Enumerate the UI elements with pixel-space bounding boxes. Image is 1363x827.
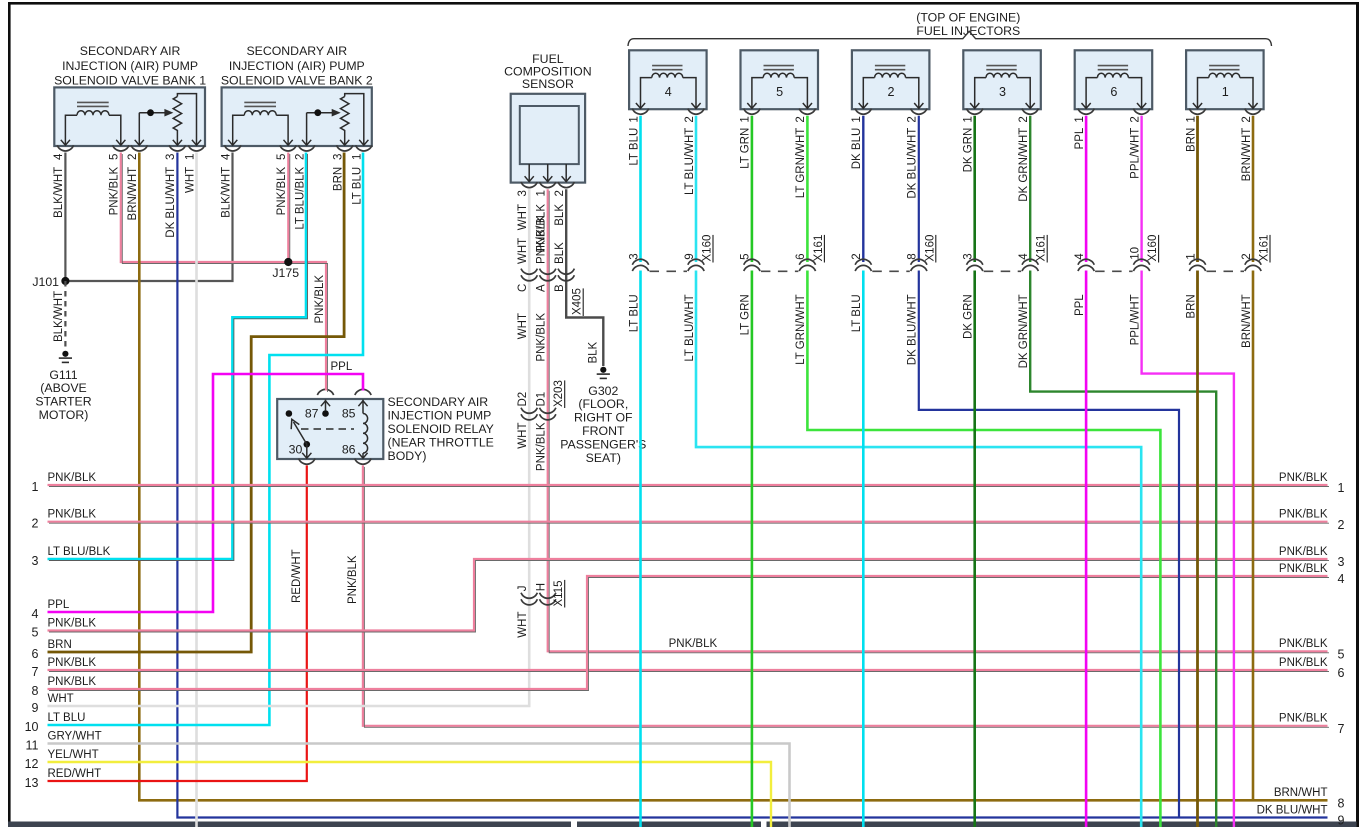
svg-text:PNK/BLK: PNK/BLK: [536, 313, 548, 362]
svg-text:WHT: WHT: [517, 423, 529, 449]
svg-text:RED/WHT: RED/WHT: [48, 768, 102, 780]
svg-text:PNK/BLK: PNK/BLK: [314, 275, 326, 324]
svg-text:D2: D2: [517, 392, 529, 407]
svg-text:DK BLU/WHT: DK BLU/WHT: [1257, 804, 1328, 816]
svg-text:J: J: [517, 586, 529, 592]
fuel injector 6 box: [1075, 50, 1153, 109]
svg-text:30: 30: [289, 442, 303, 456]
svg-text:3: 3: [999, 85, 1006, 99]
bank 2 variable resistor symbol: [341, 97, 349, 146]
svg-text:(ABOVE: (ABOVE: [40, 381, 86, 395]
svg-text:DK GRN: DK GRN: [963, 128, 975, 173]
relay pin 87 contact: [322, 410, 329, 417]
svg-text:DK GRN/WHT: DK GRN/WHT: [1018, 128, 1030, 202]
injector 2 pin1 wire LT BLU lower: [862, 271, 865, 827]
svg-text:LT GRN/WHT: LT GRN/WHT: [795, 294, 807, 365]
svg-text:1: 1: [851, 116, 863, 122]
svg-text:BRN: BRN: [48, 639, 72, 651]
svg-text:PPL: PPL: [1074, 294, 1086, 316]
svg-text:LT BLU: LT BLU: [48, 712, 86, 724]
relay box: [277, 399, 383, 459]
injector 1 pin1 wire BRN upper: [1196, 116, 1199, 262]
bank 1 wiper arrow: [139, 112, 171, 114]
svg-text:5: 5: [32, 625, 39, 639]
svg-text:X161: X161: [1036, 235, 1048, 262]
svg-text:PNK/BLK: PNK/BLK: [1279, 638, 1328, 650]
svg-text:2: 2: [851, 253, 863, 259]
svg-text:GRY/WHT: GRY/WHT: [48, 730, 102, 742]
relay dashed link: [301, 428, 354, 430]
injector 5 pin2 wire LT GRN/WHT lower: [807, 271, 1160, 827]
svg-text:WHT: WHT: [48, 693, 74, 705]
fuel composition sensor box: [511, 94, 585, 183]
svg-text:3: 3: [32, 554, 39, 568]
injector 5 inline connector X161: [744, 259, 760, 265]
line 1 PNK/BLK full width: [48, 484, 1328, 486]
wire bank2 pin5 PNK/BLK to J175: [287, 153, 289, 263]
connector X405 arcs C A B: [521, 269, 537, 275]
injector 3 pin2 wire DK GRN/WHT upper: [1029, 116, 1031, 262]
svg-text:2: 2: [554, 190, 566, 196]
injector 2 pin1 wire DK BLU upper: [862, 116, 864, 262]
svg-text:PNK/BLK: PNK/BLK: [48, 472, 97, 484]
svg-text:X203: X203: [553, 380, 565, 407]
svg-text:4: 4: [32, 607, 39, 621]
injector 2 inline connector X160: [855, 259, 871, 265]
line 7 PNK/BLK full width: [48, 669, 1328, 671]
svg-text:BRN/WHT: BRN/WHT: [1274, 787, 1328, 799]
svg-text:2: 2: [294, 154, 306, 160]
svg-text:BLK/WHT: BLK/WHT: [53, 291, 65, 342]
svg-text:X161: X161: [813, 235, 825, 262]
wire bank1 pin1 WHT down off page: [195, 153, 198, 827]
svg-text:10: 10: [25, 720, 39, 734]
injector 5 pin1 wire LT GRN lower: [751, 271, 754, 827]
svg-text:A: A: [536, 284, 548, 292]
connector X203 arcs D2 D1: [521, 408, 537, 414]
ground G302: [600, 367, 606, 373]
injector 3 coil symbol: [986, 65, 1016, 67]
svg-text:BRN: BRN: [1185, 128, 1197, 152]
bank 1 solenoid coil symbol: [77, 101, 109, 103]
svg-text:87: 87: [305, 406, 319, 420]
svg-text:PNK/BLK: PNK/BLK: [347, 555, 359, 604]
injector 6 inline connector X160: [1078, 259, 1094, 265]
svg-text:BRN/WHT: BRN/WHT: [1241, 128, 1253, 182]
svg-text:2: 2: [795, 116, 807, 122]
solenoid valve bank 1 box: [54, 87, 205, 146]
injector 2 pin2 wire DK BLU/WHT lower: [919, 271, 1179, 818]
svg-text:RIGHT OF: RIGHT OF: [574, 411, 633, 425]
svg-text:1: 1: [1185, 116, 1197, 122]
svg-text:LT BLU: LT BLU: [628, 294, 640, 332]
wire bank2 pin3 BRN to left stub 6: [48, 153, 345, 653]
injector 3 pin2 wire DK GRN/WHT lower: [1030, 271, 1216, 827]
svg-text:DK GRN: DK GRN: [963, 294, 975, 339]
svg-text:SECONDARY AIR: SECONDARY AIR: [80, 44, 181, 58]
fuel injectors bracket: [628, 31, 1272, 46]
svg-text:RED/WHT: RED/WHT: [291, 549, 303, 603]
svg-text:2: 2: [1241, 116, 1253, 122]
svg-text:1: 1: [1222, 85, 1229, 99]
svg-text:SECONDARY AIR: SECONDARY AIR: [246, 44, 347, 58]
svg-text:G111: G111: [49, 368, 77, 382]
svg-text:12: 12: [25, 757, 39, 771]
wire bank1 pin2 BRN/WHT to right stub 8: [139, 153, 1327, 801]
relay pin 30 lead: [306, 444, 308, 458]
svg-text:BLK: BLK: [554, 204, 566, 226]
injector 5 coil symbol: [764, 65, 794, 67]
bank 1 variable resistor symbol: [173, 97, 181, 146]
svg-text:2: 2: [1129, 116, 1141, 122]
svg-text:WHT: WHT: [184, 167, 196, 193]
svg-text:BRN: BRN: [1185, 294, 1197, 318]
svg-text:BLK/WHT: BLK/WHT: [221, 167, 233, 218]
svg-text:(TOP OF ENGINE): (TOP OF ENGINE): [916, 11, 1020, 25]
relay switch blade: [304, 441, 311, 448]
svg-text:2: 2: [32, 517, 39, 531]
injector 6 pin1 wire PPL upper: [1085, 116, 1088, 262]
svg-text:2: 2: [907, 116, 919, 122]
line 2 PNK/BLK full width: [48, 521, 1328, 523]
svg-text:3: 3: [963, 253, 975, 259]
svg-text:J101: J101: [32, 275, 59, 289]
svg-text:PPL: PPL: [331, 361, 353, 373]
svg-text:3: 3: [628, 253, 640, 259]
injector 4 coil symbol: [652, 65, 682, 67]
relay fixed contact: [286, 410, 293, 417]
svg-text:WHT: WHT: [517, 204, 529, 230]
svg-text:INJECTION (AIR) PUMP: INJECTION (AIR) PUMP: [62, 59, 198, 73]
svg-text:WHT: WHT: [517, 238, 529, 264]
svg-text:5: 5: [740, 253, 752, 259]
svg-text:PNK/BLK: PNK/BLK: [48, 617, 97, 629]
wire sensor pin1 PNK/BLK to right stub 5: [548, 189, 1328, 651]
svg-text:FRONT: FRONT: [582, 424, 625, 438]
svg-text:BLK: BLK: [554, 242, 566, 264]
node J101: [61, 277, 69, 285]
injector 6 pin1 wire PPL lower: [1085, 271, 1088, 827]
svg-text:PNK/BLK: PNK/BLK: [1279, 472, 1328, 484]
injector 6 pin2 wire PPL/WHT upper: [1140, 116, 1142, 262]
svg-text:X160: X160: [1147, 235, 1159, 262]
svg-text:PNK/BLK: PNK/BLK: [48, 676, 97, 688]
svg-text:PNK/BLK: PNK/BLK: [1279, 657, 1328, 669]
svg-text:LT BLU/BLK: LT BLU/BLK: [294, 166, 306, 229]
relay top connectors: [317, 389, 333, 395]
svg-text:PPL: PPL: [1074, 127, 1086, 149]
injector 1 pin1 wire BRN lower: [1196, 271, 1199, 827]
svg-text:X161: X161: [1259, 235, 1271, 262]
relay coil 85-86: [362, 400, 364, 414]
wire bank2 pin1 LT BLU to left stub 10: [48, 153, 364, 726]
injector 3 pin1 wire DK GRN upper: [973, 116, 976, 262]
fuel composition sensor pins: [528, 164, 530, 181]
wire relay 30 RED/WHT to left stub 13: [48, 465, 307, 781]
svg-text:11: 11: [26, 738, 39, 752]
svg-text:3: 3: [1338, 555, 1345, 569]
injector 6 pin2 wire PPL/WHT lower: [1142, 271, 1234, 827]
svg-text:7: 7: [1338, 722, 1345, 736]
svg-text:SEAT): SEAT): [586, 451, 621, 465]
wire J101 to G111 BLK/WHT dashed: [64, 281, 66, 351]
svg-text:LT GRN/WHT: LT GRN/WHT: [795, 128, 807, 199]
bottom page bar: [8, 822, 571, 827]
svg-text:C: C: [517, 284, 529, 292]
injector 4 pin2 wire LT BLU/WHT lower: [696, 271, 1141, 827]
svg-text:1: 1: [1074, 116, 1086, 122]
svg-text:DK GRN/WHT: DK GRN/WHT: [1018, 294, 1030, 368]
injector 4 inline connector X160: [632, 259, 648, 265]
svg-text:LT BLU: LT BLU: [851, 294, 863, 332]
svg-text:4: 4: [1338, 572, 1345, 586]
svg-text:G302: G302: [588, 384, 618, 398]
svg-text:SOLENOID VALVE BANK 2: SOLENOID VALVE BANK 2: [221, 73, 373, 87]
svg-text:LT GRN: LT GRN: [740, 128, 752, 169]
svg-text:BRN/WHT: BRN/WHT: [1241, 294, 1253, 348]
svg-text:DK BLU/WHT: DK BLU/WHT: [907, 128, 919, 199]
svg-text:5: 5: [276, 154, 288, 160]
svg-text:PPL: PPL: [48, 599, 70, 611]
line 8 PNK/BLK to right stub 4: [48, 576, 1328, 689]
svg-text:9: 9: [684, 253, 696, 259]
svg-text:WHT: WHT: [517, 612, 529, 638]
injector 1 pin2 wire BRN/WHT lower: [1252, 271, 1255, 801]
svg-text:PASSENGER'S: PASSENGER'S: [560, 437, 646, 451]
fuel injector 3 box: [963, 50, 1041, 109]
injector 5 pin1 wire LT GRN upper: [751, 116, 754, 262]
svg-text:1: 1: [740, 116, 752, 122]
svg-text:1: 1: [963, 116, 975, 122]
svg-text:2: 2: [1241, 253, 1253, 259]
svg-text:PNK/BLK: PNK/BLK: [1279, 509, 1328, 521]
svg-text:PNK/BLK: PNK/BLK: [536, 215, 548, 264]
svg-text:6: 6: [795, 253, 807, 259]
fuel injector 5 box: [741, 50, 819, 109]
svg-text:SOLENOID RELAY: SOLENOID RELAY: [388, 422, 494, 436]
svg-text:BRN/WHT: BRN/WHT: [127, 167, 139, 221]
svg-text:FUEL INJECTORS: FUEL INJECTORS: [916, 24, 1020, 38]
injector 3 inline connector X161: [967, 259, 983, 265]
svg-text:BLK/WHT: BLK/WHT: [53, 167, 65, 218]
node J175: [284, 258, 292, 266]
wire sensor pin2 BLK to G302: [566, 189, 603, 366]
svg-text:LT BLU: LT BLU: [628, 128, 640, 166]
svg-text:INJECTION (AIR) PUMP: INJECTION (AIR) PUMP: [229, 59, 365, 73]
svg-text:9: 9: [1338, 814, 1345, 827]
injector 4 pin1 wire LT BLU upper: [639, 116, 642, 262]
svg-text:X115: X115: [553, 580, 565, 606]
line 12 YEL/WHT down off page: [48, 762, 772, 827]
svg-text:LT BLU/WHT: LT BLU/WHT: [684, 294, 696, 361]
svg-text:MOTOR): MOTOR): [39, 408, 89, 422]
svg-text:4: 4: [1074, 253, 1086, 260]
svg-text:8: 8: [32, 684, 39, 698]
svg-text:BODY): BODY): [388, 449, 427, 463]
ground G111: [62, 351, 68, 357]
svg-text:1: 1: [536, 190, 548, 196]
svg-text:2: 2: [1018, 116, 1030, 122]
injector 4 pin1 wire LT BLU lower: [639, 271, 642, 827]
relay bottom connectors: [299, 459, 315, 465]
wire bank2 pin4 BLK/WHT to J101: [65, 153, 232, 282]
svg-text:LT BLU/BLK: LT BLU/BLK: [48, 546, 111, 558]
svg-text:H: H: [536, 583, 548, 591]
wire bank1 pin5 PNK/BLK to relay 87 via J175: [121, 153, 326, 391]
svg-text:1: 1: [628, 116, 640, 122]
svg-text:PNK/BLK: PNK/BLK: [536, 422, 548, 471]
svg-text:DK BLU/WHT: DK BLU/WHT: [907, 294, 919, 365]
svg-text:86: 86: [342, 442, 356, 456]
svg-text:LT BLU/WHT: LT BLU/WHT: [684, 128, 696, 195]
svg-text:8: 8: [1338, 797, 1345, 811]
svg-text:7: 7: [32, 665, 39, 679]
svg-text:4: 4: [53, 153, 65, 160]
wire bank1 pin3 DK BLU/WHT to right stub 9: [177, 153, 1327, 818]
svg-text:D1: D1: [536, 392, 548, 407]
svg-text:85: 85: [342, 406, 356, 420]
injector 2 coil symbol: [875, 65, 905, 67]
svg-text:13: 13: [25, 776, 39, 790]
svg-text:PNK/BLK: PNK/BLK: [48, 657, 97, 669]
svg-text:PNK/BLK: PNK/BLK: [276, 166, 288, 215]
svg-text:(NEAR THROTTLE: (NEAR THROTTLE: [388, 435, 494, 449]
svg-text:LT GRN: LT GRN: [740, 294, 752, 335]
svg-text:X160: X160: [702, 235, 714, 262]
svg-text:PNK/BLK: PNK/BLK: [1279, 713, 1328, 725]
bank 2 solenoid coil symbol: [244, 101, 276, 103]
svg-text:1: 1: [1185, 253, 1197, 259]
wire relay 85 PPL to left stub 4: [48, 374, 364, 612]
svg-text:B: B: [554, 284, 566, 292]
svg-text:YEL/WHT: YEL/WHT: [48, 749, 99, 761]
line 5 PNK/BLK to right stub 3: [48, 559, 1328, 631]
svg-text:SOLENOID VALVE BANK 1: SOLENOID VALVE BANK 1: [54, 73, 206, 87]
svg-text:4: 4: [1018, 253, 1030, 260]
svg-text:9: 9: [32, 701, 39, 715]
svg-text:SENSOR: SENSOR: [522, 77, 574, 91]
svg-text:3: 3: [517, 190, 529, 196]
bank 2 wiper arrow: [307, 112, 339, 114]
svg-text:WHT: WHT: [517, 313, 529, 339]
wire bank1 pin4 BLK/WHT to J101: [64, 153, 66, 282]
svg-text:5: 5: [1338, 648, 1345, 662]
svg-text:4: 4: [221, 153, 233, 160]
svg-text:10: 10: [1129, 247, 1141, 260]
fuel injector 1 box: [1186, 50, 1264, 109]
svg-text:6: 6: [32, 647, 39, 661]
svg-text:PPL/WHT: PPL/WHT: [1129, 294, 1141, 345]
svg-text:2: 2: [1338, 518, 1345, 532]
svg-text:5: 5: [109, 154, 121, 160]
injector 4 pin2 wire LT BLU/WHT upper: [695, 116, 698, 262]
svg-text:1: 1: [32, 480, 39, 494]
svg-text:BLK: BLK: [588, 341, 600, 363]
svg-text:PNK/BLK: PNK/BLK: [669, 638, 718, 650]
svg-text:DK BLU: DK BLU: [851, 128, 863, 170]
svg-text:PNK/BLK: PNK/BLK: [109, 166, 121, 215]
line 11 GRY/WHT down off page: [48, 744, 790, 827]
svg-text:5: 5: [776, 85, 783, 99]
injector 1 pin2 wire BRN/WHT upper: [1252, 116, 1255, 262]
svg-text:1: 1: [184, 154, 196, 160]
svg-text:DK BLU/WHT: DK BLU/WHT: [165, 167, 177, 238]
connector X115 arcs J H: [521, 593, 537, 599]
wire bank2 pin2 LT BLU/BLK to left stub 3: [48, 153, 307, 560]
svg-text:X405: X405: [572, 288, 584, 315]
injector 3 pin1 wire DK GRN lower: [973, 271, 976, 827]
svg-text:6: 6: [1110, 85, 1117, 99]
svg-text:2: 2: [127, 154, 139, 160]
svg-text:4: 4: [665, 85, 672, 99]
svg-text:2: 2: [888, 85, 895, 99]
svg-text:SECONDARY AIR: SECONDARY AIR: [388, 395, 489, 409]
svg-text:X160: X160: [924, 235, 936, 262]
svg-text:PNK/BLK: PNK/BLK: [48, 509, 97, 521]
solenoid valve bank 2 box: [222, 87, 372, 146]
svg-text:8: 8: [907, 253, 919, 259]
svg-text:6: 6: [1338, 666, 1345, 680]
svg-text:PPL/WHT: PPL/WHT: [1129, 128, 1141, 179]
wire sensor pin3 WHT to left stub 9: [48, 189, 530, 706]
injector 1 inline connector X161: [1189, 259, 1205, 265]
svg-text:3: 3: [165, 154, 177, 160]
svg-text:2: 2: [684, 116, 696, 122]
injector 1 coil symbol: [1209, 65, 1239, 67]
fuel injector 2 box: [852, 50, 930, 109]
injector 6 coil symbol: [1098, 65, 1128, 67]
wire relay 86 PNK/BLK to right stub 7: [363, 465, 1328, 725]
svg-text:STARTER: STARTER: [35, 395, 91, 409]
svg-text:J175: J175: [272, 266, 299, 280]
svg-text:PNK/BLK: PNK/BLK: [1279, 546, 1328, 558]
injector 5 pin2 wire LT GRN/WHT upper: [806, 116, 809, 262]
svg-text:INJECTION PUMP: INJECTION PUMP: [388, 408, 492, 422]
svg-text:(FLOOR,: (FLOOR,: [578, 397, 628, 411]
fuel injector 4 box: [629, 50, 707, 109]
svg-text:1: 1: [1338, 481, 1345, 495]
injector 2 pin2 wire DK BLU/WHT upper: [918, 116, 920, 262]
svg-text:PNK/BLK: PNK/BLK: [1279, 563, 1328, 575]
